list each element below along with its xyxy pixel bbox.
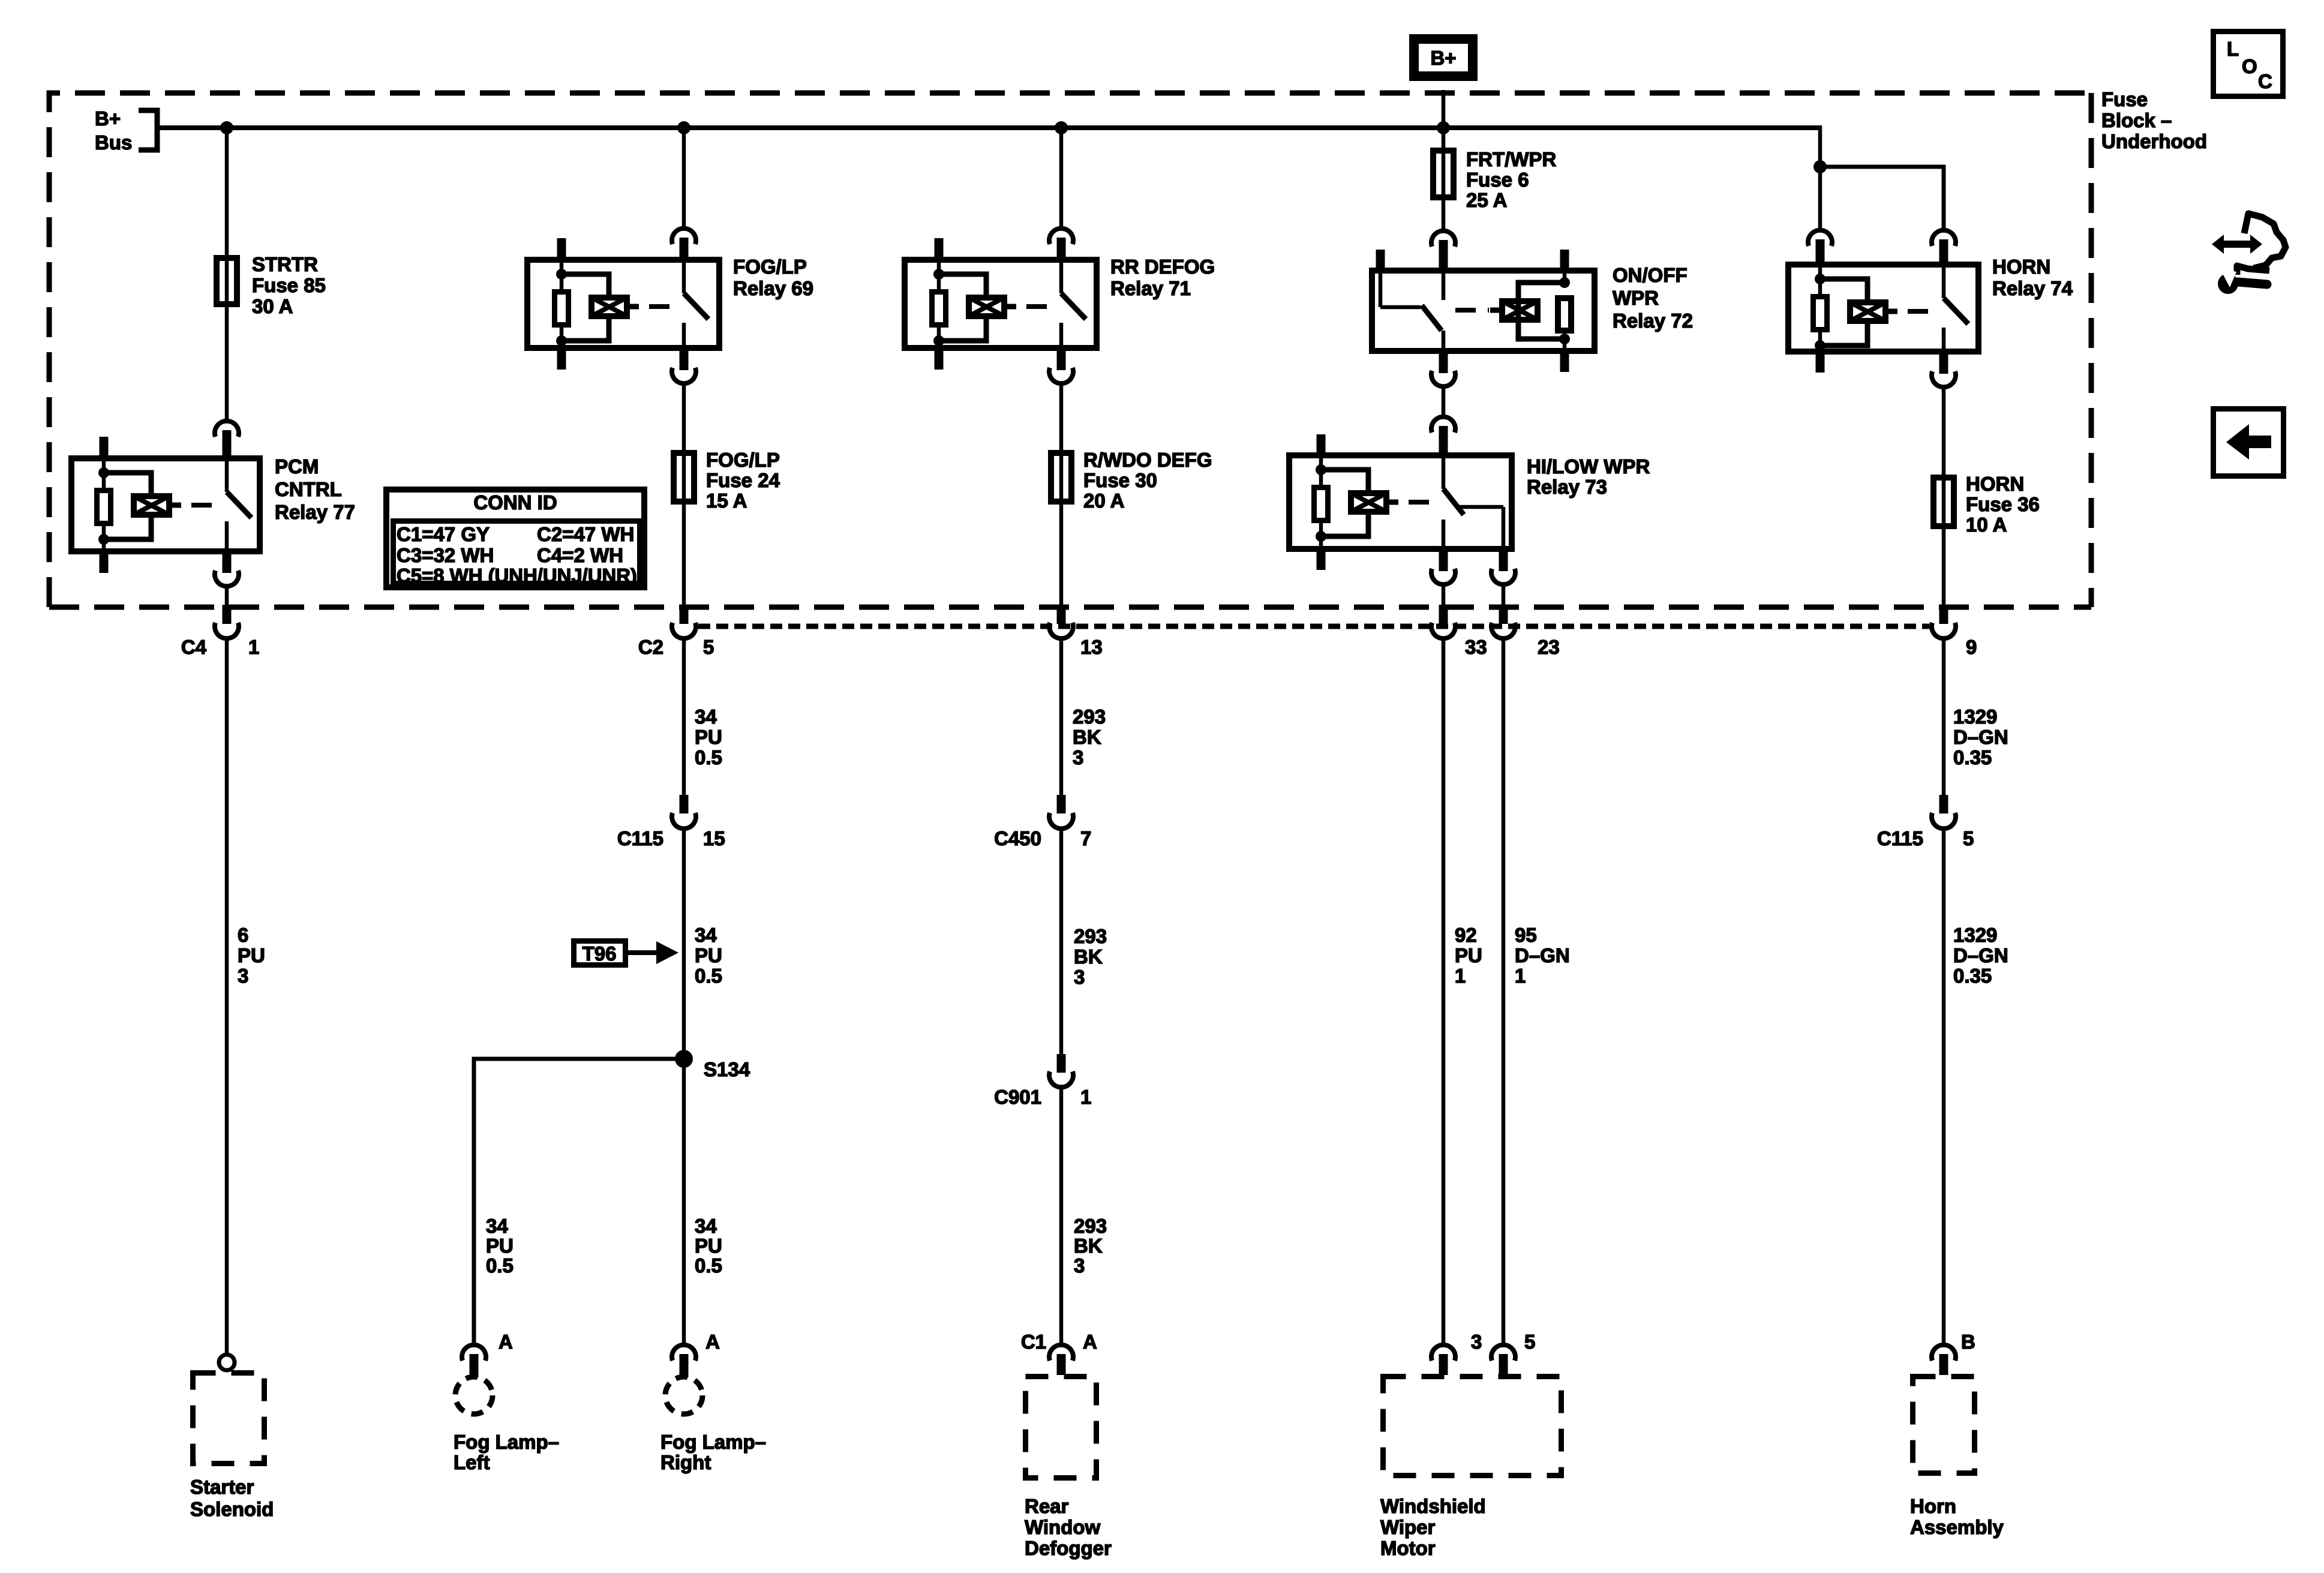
- relay PCM CNTRL Relay 77: [71, 437, 260, 573]
- connector cavity into relay 73: [1431, 417, 1455, 452]
- wire 92 PU 1: [1442, 638, 1446, 1344]
- svg-text:A: A: [705, 1331, 720, 1353]
- relay R71 coil-side pin wire: [937, 257, 941, 277]
- splice S134: [675, 1050, 693, 1068]
- icon back arrow box: [2214, 409, 2284, 476]
- fuse STRTR Fuse 85: [217, 258, 237, 304]
- svg-text:5: 5: [1524, 1331, 1535, 1353]
- svg-text:C115: C115: [617, 827, 663, 849]
- connector pin 9 blade: [1939, 605, 1948, 624]
- svg-text:Relay 74: Relay 74: [1992, 277, 2073, 299]
- relay R71 junction dot lower: [933, 335, 944, 346]
- svg-text:STRTR: STRTR: [252, 253, 318, 275]
- component Fog Lamp Left: [455, 1377, 493, 1414]
- relay R77 coil pin stub above: [100, 437, 109, 455]
- wire 95 D-GN 1: [1502, 638, 1506, 1344]
- svg-text:B+: B+: [1430, 47, 1456, 69]
- component Starter Solenoid box: [193, 1373, 265, 1464]
- svg-text:25 A: 25 A: [1466, 189, 1507, 211]
- connector cavity into relay 77: [215, 421, 239, 455]
- component Fog Lamp Right: [665, 1377, 702, 1414]
- svg-text:3: 3: [1074, 966, 1085, 988]
- component Rear Window Defogger box: [1026, 1377, 1097, 1478]
- svg-text:C450: C450: [994, 827, 1041, 849]
- svg-text:B: B: [1961, 1331, 1975, 1353]
- svg-text:Relay 72: Relay 72: [1613, 310, 1693, 332]
- relay R71 switch: [1061, 257, 1086, 351]
- wire B+ box to bus: [1442, 90, 1446, 128]
- svg-text:293: 293: [1074, 925, 1107, 947]
- relay R71 actuation dashed link: [1026, 304, 1056, 309]
- svg-text:S134: S134: [704, 1058, 750, 1080]
- wire 293 BK lower segment: [1059, 1087, 1064, 1344]
- svg-text:PU: PU: [1455, 944, 1482, 966]
- relay R77 junction dot lower: [98, 534, 109, 545]
- relay R77 body box: [71, 458, 260, 551]
- connector cavity into relay 74 coil: [1808, 230, 1832, 262]
- svg-text:Rear: Rear: [1025, 1495, 1069, 1517]
- wire relay 69 to fuse 24: [682, 385, 686, 606]
- wire 34 PU to S134: [682, 828, 686, 1059]
- wire bus to FRT/WPR fuse: [1442, 128, 1446, 229]
- svg-text:C901: C901: [994, 1086, 1041, 1108]
- CONN ID table frame: [386, 490, 644, 587]
- svg-text:0.5: 0.5: [695, 965, 722, 987]
- svg-text:D–GN: D–GN: [1953, 944, 2008, 966]
- connector cavity into relay 74 switch: [1932, 230, 1956, 262]
- relay R69 body box: [527, 260, 719, 348]
- connector C450 pin 7 socket: [1049, 813, 1073, 828]
- connector pin 23 socket: [1491, 623, 1515, 638]
- svg-text:PU: PU: [238, 944, 265, 966]
- fuse FRT/WPR Fuse 6: [1433, 151, 1454, 197]
- B+ bus bracket: [139, 110, 157, 150]
- wire relay 73 out1 to edge: [1442, 586, 1446, 606]
- svg-text:A: A: [499, 1331, 513, 1353]
- wire bus B+ horizontal: [157, 125, 1820, 130]
- svg-text:FOG/LP: FOG/LP: [706, 449, 780, 471]
- connector cavity out of relay 69: [672, 351, 696, 383]
- wire 34 PU upper segment: [682, 638, 686, 795]
- relay R77 coil-side pin wire: [102, 455, 106, 475]
- svg-text:HI/LOW WPR: HI/LOW WPR: [1527, 455, 1650, 478]
- relay RR DEFOG Relay 71: [905, 238, 1097, 370]
- svg-text:Fog Lamp–: Fog Lamp–: [454, 1431, 559, 1453]
- svg-text:C3=32 WH: C3=32 WH: [397, 544, 494, 566]
- connector wiper motor pin 3: [1431, 1345, 1455, 1375]
- svg-text:WPR: WPR: [1613, 287, 1659, 309]
- connector cavity out of relay 74: [1932, 355, 1956, 387]
- svg-text:0.5: 0.5: [486, 1254, 514, 1277]
- relay ON/OFF WPR Relay 72: [1372, 250, 1595, 372]
- svg-text:C1=47 GY: C1=47 GY: [397, 523, 490, 545]
- wire relay 73 out2 to edge: [1502, 586, 1506, 606]
- relay HORN Relay 74: [1788, 262, 1978, 373]
- svg-text:CONN ID: CONN ID: [473, 491, 557, 514]
- relay R69 actuation dashed link: [649, 304, 679, 309]
- svg-text:23: 23: [1538, 636, 1560, 658]
- relay HI/LOW WPR Relay 73: [1289, 434, 1512, 570]
- relay R77 actuation dashed link: [191, 503, 222, 508]
- connector C901 pin 1 socket: [1049, 1071, 1073, 1087]
- svg-text:PCM: PCM: [275, 455, 319, 478]
- svg-text:15: 15: [703, 827, 725, 849]
- relay R77 coil pin stub below: [100, 554, 109, 573]
- svg-text:Relay 69: Relay 69: [733, 277, 813, 299]
- wire bus corner down to horn relay: [1818, 125, 1822, 228]
- svg-text:3: 3: [1074, 1254, 1085, 1277]
- svg-text:6: 6: [238, 924, 248, 946]
- fuse HORN Fuse 36: [1933, 478, 1954, 526]
- connector pin 9 socket: [1932, 623, 1956, 638]
- svg-text:20 A: 20 A: [1083, 490, 1124, 512]
- svg-text:BK: BK: [1074, 945, 1103, 968]
- svg-text:Solenoid: Solenoid: [190, 1498, 274, 1520]
- relay R74 junction dot lower: [1815, 340, 1825, 351]
- svg-text:Underhood: Underhood: [2101, 130, 2207, 152]
- svg-text:FRT/WPR: FRT/WPR: [1466, 148, 1556, 170]
- connector pin 13 socket: [1049, 623, 1073, 638]
- svg-text:PU: PU: [695, 726, 722, 748]
- relay FOG/LP Relay 69: [527, 238, 719, 370]
- connector cavity out of relay 73 pin 33: [1431, 552, 1455, 584]
- connector C2 pin 5 blade: [680, 605, 689, 624]
- svg-text:Assembly: Assembly: [1910, 1516, 2004, 1538]
- connector pin 33 socket: [1431, 623, 1455, 638]
- connector C4 pin 1 socket: [215, 623, 239, 638]
- svg-text:Window: Window: [1025, 1516, 1100, 1538]
- connector wiper motor pin 5: [1491, 1345, 1515, 1375]
- wire horn branch to switch pin: [1820, 167, 1944, 228]
- icon service wrench: [2212, 214, 2286, 294]
- svg-text:Relay 73: Relay 73: [1527, 476, 1607, 498]
- wire relay 77 to fuse block edge: [225, 587, 229, 606]
- svg-text:5: 5: [1963, 827, 1974, 849]
- svg-text:33: 33: [1465, 636, 1487, 658]
- svg-text:7: 7: [1080, 827, 1091, 849]
- relay R69 coil parallel loop wire: [562, 274, 609, 341]
- takeout T96 box: [574, 941, 626, 965]
- relay R77 coil parallel loop wire: [104, 473, 151, 539]
- junction bus / FRT-WPR fuse: [1437, 121, 1450, 134]
- relay R69 coil element: [591, 298, 639, 316]
- svg-text:3: 3: [1471, 1331, 1482, 1353]
- svg-text:1: 1: [1455, 965, 1466, 987]
- wire 1329 D-GN lower: [1942, 828, 1946, 1344]
- connector cavity out of relay 72: [1431, 354, 1455, 386]
- wire bus to relay 69: [682, 128, 686, 227]
- relay R69 junction dot lower: [556, 335, 567, 346]
- connector face dotted line C2/C115 row: [698, 624, 1929, 629]
- relay R73 coil element: [1351, 493, 1398, 512]
- connector cavity into relay 69: [672, 229, 696, 257]
- relay R77 coil element: [134, 496, 181, 515]
- relay R71 body box: [905, 260, 1097, 348]
- svg-text:FOG/LP: FOG/LP: [733, 256, 807, 278]
- wire relay 72 to relay 73: [1442, 388, 1446, 417]
- component Windshield Wiper Motor box: [1383, 1377, 1562, 1476]
- svg-text:C: C: [2258, 70, 2272, 92]
- svg-text:293: 293: [1073, 706, 1106, 728]
- svg-text:HORN: HORN: [1966, 473, 2024, 495]
- svg-text:3: 3: [1073, 746, 1083, 769]
- svg-text:C5=8 WH (UNH/UNJ/UNR): C5=8 WH (UNH/UNJ/UNR): [397, 565, 637, 587]
- connector fog lamp right pin A: [672, 1345, 696, 1377]
- svg-text:RR DEFOG: RR DEFOG: [1110, 256, 1215, 278]
- svg-text:0.35: 0.35: [1953, 746, 1992, 769]
- connector cavity out of relay 71: [1049, 351, 1073, 383]
- svg-text:O: O: [2242, 55, 2257, 77]
- svg-text:Fuse 24: Fuse 24: [706, 469, 780, 491]
- relay R71 coil element: [969, 298, 1016, 316]
- wire 6 PU 3 to starter solenoid: [225, 638, 229, 1355]
- wire bus to relay 71: [1059, 128, 1064, 227]
- connector C115 pin 5 horn socket: [1932, 813, 1956, 828]
- svg-text:L: L: [2227, 38, 2239, 60]
- relay R73 junction dot lower: [1316, 531, 1326, 542]
- connector C115 pin 15 blade: [680, 795, 689, 813]
- connector C450 pin 7 blade: [1057, 795, 1066, 813]
- svg-text:B+: B+: [95, 107, 121, 130]
- svg-text:PU: PU: [486, 1235, 514, 1257]
- svg-text:A: A: [1083, 1331, 1097, 1353]
- svg-text:D–GN: D–GN: [1515, 944, 1570, 966]
- wire bus to STRTR fuse: [225, 128, 229, 420]
- svg-text:Starter: Starter: [190, 1476, 254, 1498]
- svg-text:Fuse 85: Fuse 85: [252, 274, 326, 296]
- relay R73 junction dot upper: [1316, 464, 1326, 475]
- svg-text:C4=2 WH: C4=2 WH: [537, 544, 623, 566]
- relay R74 coil element: [1850, 302, 1897, 321]
- svg-text:R/WDO DEFG: R/WDO DEFG: [1083, 449, 1212, 471]
- connector horn assembly pin B: [1932, 1345, 1956, 1375]
- svg-text:10 A: 10 A: [1966, 514, 2007, 536]
- junction horn branch: [1813, 160, 1827, 173]
- svg-text:15 A: 15 A: [706, 490, 747, 512]
- svg-text:92: 92: [1455, 924, 1477, 946]
- svg-text:34: 34: [486, 1215, 508, 1237]
- relay R73 coil-side pin wire: [1319, 452, 1323, 472]
- relay R77 switch: [227, 455, 251, 554]
- relay R74 suppression resistor: [1813, 297, 1827, 330]
- node B+ supply box: [1414, 39, 1473, 76]
- wire relay 71 to fuse 30: [1059, 385, 1064, 606]
- svg-text:Fuse 36: Fuse 36: [1966, 493, 2040, 515]
- svg-text:0.5: 0.5: [695, 1254, 722, 1277]
- relay R71 coil pin stub below: [935, 351, 944, 370]
- svg-text:1: 1: [1080, 1086, 1091, 1108]
- svg-text:C2: C2: [638, 636, 663, 658]
- starter solenoid ring terminal: [219, 1355, 235, 1370]
- svg-text:9: 9: [1966, 636, 1977, 658]
- svg-text:1: 1: [1515, 965, 1526, 987]
- fuse FOG/LP Fuse 24: [674, 453, 694, 502]
- wire 293 BK mid segment: [1059, 828, 1064, 1054]
- connector C115 pin 5 horn blade: [1939, 795, 1948, 813]
- svg-text:1329: 1329: [1953, 924, 1997, 946]
- connector cavity out of relay 73 pin 23: [1491, 552, 1515, 584]
- wire S134 branch to left fog lamp: [474, 1059, 684, 1344]
- svg-text:Fog Lamp–: Fog Lamp–: [660, 1431, 766, 1453]
- connector cavity into relay 71: [1049, 229, 1073, 257]
- svg-text:Bus: Bus: [95, 131, 132, 154]
- wire S134 to right fog lamp: [682, 1059, 686, 1344]
- takeout T96 arrow: [628, 950, 659, 955]
- svg-text:C1: C1: [1021, 1331, 1046, 1353]
- connector C2 pin 5 socket: [672, 623, 696, 638]
- svg-text:34: 34: [695, 1215, 717, 1237]
- connector C901 pin 1 blade: [1057, 1054, 1066, 1073]
- relay R69 coil-side pin wire: [560, 257, 564, 277]
- svg-text:Fuse 6: Fuse 6: [1466, 169, 1529, 191]
- svg-text:Wiper: Wiper: [1380, 1516, 1436, 1538]
- svg-text:13: 13: [1080, 636, 1103, 658]
- svg-text:ON/OFF: ON/OFF: [1613, 264, 1688, 286]
- svg-text:30 A: 30 A: [252, 295, 293, 317]
- component Horn Assembly box: [1913, 1377, 1975, 1473]
- svg-text:BK: BK: [1074, 1235, 1103, 1257]
- svg-text:T96: T96: [582, 942, 617, 965]
- svg-text:1329: 1329: [1953, 706, 1997, 728]
- svg-text:Defogger: Defogger: [1025, 1537, 1112, 1559]
- svg-text:Fuse: Fuse: [2101, 88, 2148, 110]
- connector cavity out of relay 77: [215, 554, 239, 586]
- relay R73 suppression resistor: [1314, 488, 1328, 521]
- svg-text:293: 293: [1074, 1215, 1107, 1237]
- junction bus / fog relay: [677, 121, 690, 134]
- relay R71 coil pin stub above: [935, 238, 944, 257]
- svg-text:3: 3: [238, 965, 248, 987]
- svg-text:5: 5: [703, 636, 714, 658]
- svg-text:Left: Left: [454, 1451, 490, 1473]
- connector C4 pin 1 blade: [223, 605, 232, 624]
- svg-text:PU: PU: [695, 1235, 722, 1257]
- svg-text:Relay 77: Relay 77: [275, 501, 355, 523]
- junction bus / STRTR fuse: [220, 121, 233, 134]
- wire 1329 D-GN upper: [1942, 638, 1946, 795]
- svg-text:Horn: Horn: [1910, 1495, 1956, 1517]
- svg-text:PU: PU: [695, 944, 722, 966]
- connector pin 33 blade: [1439, 605, 1448, 624]
- svg-text:0.5: 0.5: [695, 746, 722, 769]
- icon back arrow: [2226, 424, 2271, 460]
- svg-text:95: 95: [1515, 924, 1537, 946]
- svg-text:BK: BK: [1073, 726, 1101, 748]
- svg-text:34: 34: [695, 706, 717, 728]
- junction bus / defog relay: [1055, 121, 1068, 134]
- icon LOC box: [2214, 32, 2283, 97]
- connector pin 13 blade: [1057, 605, 1066, 624]
- relay R71 coil parallel loop wire: [939, 274, 986, 341]
- relay R69 suppression resistor: [555, 292, 569, 325]
- wire relay 74 to fuse 36: [1942, 388, 1946, 606]
- svg-text:CNTRL: CNTRL: [275, 478, 342, 500]
- connector C1 pin A defogger: [1049, 1345, 1073, 1375]
- relay R74 junction dot upper: [1815, 274, 1825, 284]
- connector cavity into relay 72: [1431, 231, 1455, 268]
- svg-text:Relay 71: Relay 71: [1110, 277, 1191, 299]
- svg-text:D–GN: D–GN: [1953, 726, 2008, 748]
- fuse R/WDO DEFG Fuse 30: [1051, 453, 1071, 502]
- svg-text:HORN: HORN: [1992, 256, 2050, 278]
- svg-text:Fuse 30: Fuse 30: [1083, 469, 1157, 491]
- relay R71 suppression resistor: [932, 292, 946, 325]
- relay R69 coil pin stub above: [557, 238, 566, 257]
- relay R74 coil-side pin wire: [1818, 262, 1822, 281]
- wire 293 BK upper segment: [1059, 638, 1064, 795]
- relay R69 switch: [684, 257, 708, 351]
- svg-text:Windshield: Windshield: [1380, 1495, 1486, 1517]
- relay R69 junction dot upper: [556, 269, 567, 280]
- svg-text:Motor: Motor: [1380, 1537, 1436, 1559]
- svg-text:Right: Right: [660, 1451, 711, 1473]
- svg-text:C4: C4: [181, 636, 207, 658]
- svg-text:C115: C115: [1877, 827, 1923, 849]
- svg-text:Block –: Block –: [2101, 109, 2172, 131]
- fuse block underhood dashed boundary box: [49, 93, 2091, 607]
- relay R73 coil parallel loop wire: [1321, 470, 1368, 536]
- connector pin 23 blade: [1499, 605, 1508, 624]
- relay R71 junction dot upper: [933, 269, 944, 280]
- svg-text:1: 1: [248, 636, 259, 658]
- svg-text:C2=47 WH: C2=47 WH: [537, 523, 634, 545]
- connector C115 pin 15 socket: [672, 813, 696, 828]
- connector fog lamp left pin A: [462, 1345, 486, 1377]
- relay R77 suppression resistor: [97, 491, 111, 524]
- relay R69 coil pin stub below: [557, 351, 566, 370]
- svg-text:34: 34: [695, 924, 717, 946]
- relay R77 junction dot upper: [98, 467, 109, 478]
- svg-text:0.35: 0.35: [1953, 965, 1992, 987]
- relay R74 coil parallel loop wire: [1820, 279, 1867, 346]
